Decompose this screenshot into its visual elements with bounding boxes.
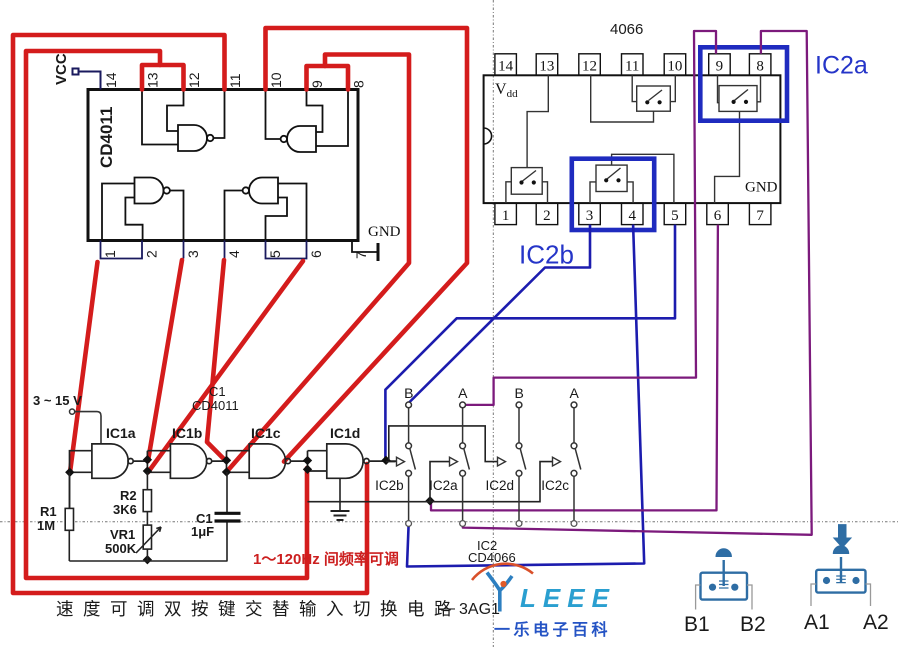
wire blue: 4066 pin3 to node B (IC2b top): [409, 225, 590, 403]
pin box 14 top: [495, 54, 517, 76]
svg-text:IC2a: IC2a: [429, 478, 458, 493]
svg-text:B: B: [515, 385, 524, 401]
svg-text:3AG1: 3AG1: [459, 601, 500, 618]
gate IC1a: [70, 444, 171, 509]
wire power to IC1a: [75, 412, 101, 444]
wire red: pin3 to IC1b input node: [148, 260, 182, 461]
switch IC2b column: [409, 408, 416, 521]
pin box 1 bottom: [495, 203, 517, 225]
arrow into IC2c: [553, 457, 561, 466]
construction line vertical: [492, 0, 494, 647]
pin box 4 bottom: [622, 203, 644, 225]
wire red: pins9-8 box: [307, 66, 349, 90]
wire blue: IC1d output to 4066 pin5: [385, 225, 675, 460]
svg-text:IC2b: IC2b: [519, 240, 574, 270]
button B1/B2: [701, 560, 748, 600]
resistor R2: [146, 472, 148, 525]
switch unit SW3-4: [590, 154, 674, 203]
svg-text:1μF: 1μF: [191, 524, 214, 539]
svg-text:B: B: [404, 385, 413, 401]
svg-text:R1: R1: [40, 504, 57, 519]
svg-text:4: 4: [226, 250, 242, 258]
control rail to IC2a/IC2c: [308, 462, 553, 502]
junction dots oscillator: [65, 455, 435, 564]
gate U1C bottom-left NAND: [102, 178, 184, 241]
svg-text:IC2a: IC2a: [815, 52, 868, 80]
svg-text:IC2b: IC2b: [375, 478, 404, 493]
svg-text:9: 9: [309, 80, 325, 88]
pin box 6 bottom: [707, 203, 729, 225]
svg-text:13: 13: [539, 59, 554, 75]
pin box 10 top: [664, 54, 686, 76]
svg-text:GND: GND: [368, 224, 401, 240]
wire red: pins9/8 to IC1b output node: [227, 55, 410, 473]
svg-text:1M: 1M: [37, 518, 55, 533]
IC body CD4011: [88, 90, 358, 241]
svg-text:10: 10: [268, 72, 284, 88]
svg-text:A2: A2: [863, 611, 889, 634]
pin box 3 bottom: [579, 203, 601, 225]
switch IC2c column: [574, 408, 581, 521]
pin box 13 top: [536, 54, 558, 76]
svg-text:A: A: [458, 385, 468, 401]
wire red: pin4 to IC1b output node: [207, 260, 227, 462]
pin box 8 top: [749, 54, 771, 76]
highlight box IC2b: [572, 159, 654, 230]
svg-text:11: 11: [625, 59, 639, 75]
bottom pin stubs / joins: [101, 241, 143, 259]
svg-text:1～120Hz 间频率可调: 1～120Hz 间频率可调: [253, 550, 399, 568]
wire red: pin11 loop to IC1d output (outer): [13, 35, 367, 593]
svg-text:11: 11: [227, 73, 243, 88]
svg-text:CD4011: CD4011: [192, 398, 239, 413]
wire purple: IC2a top circle to 4066 pin9: [466, 31, 717, 405]
svg-text:R2: R2: [120, 488, 137, 503]
pin7 ground: [352, 241, 378, 253]
svg-text:IC1c: IC1c: [251, 425, 281, 441]
svg-text:2: 2: [543, 208, 551, 224]
gate IC1b: [170, 444, 249, 478]
svg-text:10: 10: [667, 59, 682, 75]
resistor R1: [68, 472, 70, 561]
arrow into IC2d: [498, 457, 506, 466]
svg-text:GND: GND: [745, 180, 778, 196]
svg-text:8: 8: [756, 59, 764, 75]
svg-text:2: 2: [144, 250, 160, 258]
bottom rail: [69, 560, 227, 562]
button A1/A2: [816, 557, 865, 593]
gate U1A top-left NAND: [142, 90, 225, 152]
svg-text:3K6: 3K6: [113, 502, 137, 517]
switch IC2d column: [519, 408, 526, 521]
pin box 5 bottom: [664, 203, 686, 225]
highlight box IC2a: [700, 47, 787, 120]
svg-text:14: 14: [498, 59, 514, 75]
gate IC1d: [327, 444, 396, 478]
gate IC1c: [249, 444, 327, 478]
switch unit SW1-2: [506, 75, 548, 203]
svg-text:7: 7: [756, 208, 764, 224]
wire VCC to pin14: [79, 72, 101, 90]
IC2 body: [484, 75, 781, 203]
pin box 11 top: [622, 54, 644, 76]
svg-text:9: 9: [716, 59, 724, 75]
svg-text:500K: 500K: [105, 541, 137, 556]
svg-text:B1: B1: [684, 613, 710, 636]
svg-text:—: —: [439, 600, 455, 617]
svg-text:IC2c: IC2c: [541, 478, 569, 493]
wire red: pin10 to IC1c output: [266, 28, 468, 462]
notch: [484, 128, 492, 144]
svg-text:A: A: [570, 385, 580, 401]
switch IC2a column: [463, 408, 470, 521]
gate U1D bottom-right NAND (mirrored): [225, 178, 307, 241]
svg-text:3: 3: [185, 250, 201, 258]
svg-text:5: 5: [267, 250, 283, 258]
pin box 12 top: [579, 54, 601, 76]
svg-text:13: 13: [145, 72, 161, 88]
switch unit SW9-8: [715, 75, 761, 203]
svg-text:12: 12: [186, 72, 202, 88]
svg-text:6: 6: [308, 250, 324, 258]
svg-text:VR1: VR1: [110, 527, 135, 542]
svg-text:12: 12: [582, 59, 597, 75]
wire red: pins13-12 box: [142, 65, 184, 90]
svg-text:VCC: VCC: [53, 53, 70, 85]
pin box 2 bottom: [536, 203, 558, 225]
wire red: pin1 to IC1a input: [70, 262, 98, 472]
svg-text:一乐电子百科: 一乐电子百科: [494, 620, 611, 639]
svg-text:速度可调双按键交替输入切换电路: 速度可调双按键交替输入切换电路: [56, 599, 461, 619]
pin stubs top (13,12,11,10,9,8): [142, 75, 348, 90]
svg-text:A1: A1: [804, 611, 830, 634]
svg-text:C1: C1: [209, 384, 226, 399]
svg-text:IC2d: IC2d: [485, 478, 514, 493]
pin box 9 top: [709, 54, 731, 76]
VCC pin square: [73, 69, 79, 75]
svg-text:IC1b: IC1b: [172, 425, 202, 441]
svg-text:3: 3: [586, 208, 594, 224]
svg-text:3 ~ 15 V: 3 ~ 15 V: [33, 393, 82, 408]
svg-text:8: 8: [351, 80, 367, 88]
wire red: pins5/6 to IC1b input node: [148, 261, 303, 472]
wire purple: 4066 pin8 to IC2a bottom: [463, 31, 812, 535]
press arrow: [834, 525, 851, 548]
svg-text:5: 5: [671, 208, 679, 224]
svg-text:4: 4: [628, 208, 636, 224]
svg-text:IC1d: IC1d: [330, 425, 360, 441]
switch unit SW11-10: [591, 75, 676, 122]
pin box 7 bottom: [749, 203, 771, 225]
svg-text:1: 1: [502, 208, 510, 224]
svg-text:LEEE: LEEE: [520, 583, 616, 613]
wire arrow feed IC2b: [386, 461, 396, 463]
gate U1B top-right NAND (mirrored): [266, 90, 349, 153]
svg-text:4066: 4066: [610, 21, 643, 38]
capacitor C1: [226, 472, 228, 562]
potentiometer VR1: [143, 525, 151, 549]
ground under IC1d: [339, 478, 341, 511]
logo arc: [472, 564, 533, 580]
svg-text:14: 14: [103, 72, 119, 88]
arrow into IC2b: [397, 457, 405, 466]
logo Y figure: [487, 573, 500, 612]
crossover wire to IC2d: [389, 426, 497, 462]
wire blue: 4066 pin4 down to IC2b bottom: [407, 225, 644, 567]
svg-text:1: 1: [102, 250, 118, 258]
svg-text:CD4011: CD4011: [97, 107, 116, 168]
svg-text:IC1a: IC1a: [106, 425, 136, 441]
construction line horizontal: [0, 521, 900, 523]
svg-text:6: 6: [714, 208, 722, 224]
wire purple: 4066 pin6 to control rail junction: [431, 225, 718, 511]
arrow into IC2a: [450, 457, 458, 466]
wire red: inner loop pins13/12 to IC1d inputs: [26, 51, 307, 578]
svg-text:B2: B2: [740, 613, 766, 636]
